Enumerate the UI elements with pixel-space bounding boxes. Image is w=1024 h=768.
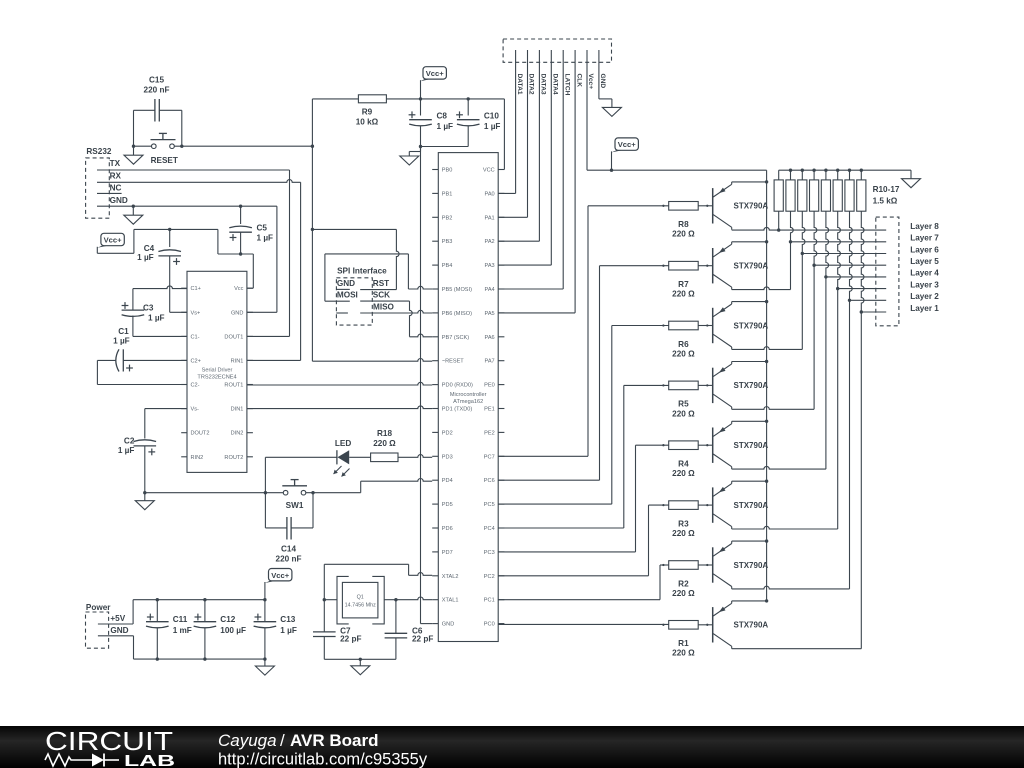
svg-text:C13: C13 (280, 615, 295, 624)
svg-text:10 kΩ: 10 kΩ (356, 118, 379, 127)
svg-text:PD1 (TXD0): PD1 (TXD0) (442, 407, 473, 413)
svg-text:220 Ω: 220 Ω (672, 409, 695, 418)
svg-text:LED: LED (335, 439, 351, 448)
svg-text:220 Ω: 220 Ω (672, 649, 695, 658)
svg-text:PA4: PA4 (485, 287, 495, 293)
svg-text:Vcc+: Vcc+ (104, 236, 123, 245)
svg-text:220 Ω: 220 Ω (672, 469, 695, 478)
svg-text:STX790A: STX790A (734, 561, 769, 570)
svg-text:DATA2: DATA2 (528, 74, 535, 95)
svg-text:R2: R2 (678, 579, 689, 588)
svg-text:NC: NC (110, 184, 122, 193)
svg-text:C2+: C2+ (191, 358, 201, 364)
svg-text:1 µF: 1 µF (148, 313, 165, 322)
svg-text:C15: C15 (149, 76, 164, 85)
svg-text:PC4: PC4 (484, 526, 495, 532)
svg-text:STX790A: STX790A (734, 621, 769, 630)
svg-text:RESET: RESET (151, 156, 178, 165)
svg-text:PA3: PA3 (485, 263, 495, 269)
svg-text:PC5: PC5 (484, 502, 495, 508)
svg-text:R3: R3 (678, 519, 689, 528)
svg-text:PA0: PA0 (485, 191, 495, 197)
svg-text:PB6 (MISO): PB6 (MISO) (442, 311, 472, 317)
svg-text:DOUT2: DOUT2 (191, 431, 210, 437)
svg-text:R1: R1 (678, 639, 689, 648)
svg-text:PB5 (MOSI): PB5 (MOSI) (442, 287, 472, 293)
svg-text:PE0: PE0 (484, 383, 495, 389)
svg-text:22 pF: 22 pF (412, 635, 433, 644)
svg-text:PD5: PD5 (442, 502, 453, 508)
svg-text:C2-: C2- (191, 383, 200, 389)
svg-text:CIRCUIT: CIRCUIT (45, 726, 173, 756)
svg-text:GND: GND (231, 310, 243, 316)
svg-text:ROUT1: ROUT1 (224, 383, 243, 389)
svg-text:PC1: PC1 (484, 598, 495, 604)
svg-text:DOUT1: DOUT1 (224, 334, 243, 340)
svg-text:PC0: PC0 (484, 622, 495, 628)
svg-text:Power: Power (86, 603, 111, 612)
svg-text:PD3: PD3 (442, 454, 453, 460)
svg-text:PB2: PB2 (442, 215, 453, 221)
svg-text:C14: C14 (281, 545, 296, 554)
svg-text:1 µF: 1 µF (113, 337, 130, 346)
svg-text:GND: GND (110, 626, 128, 635)
svg-text:PC6: PC6 (484, 478, 495, 484)
svg-text:PB7 (SCK): PB7 (SCK) (442, 335, 469, 341)
svg-text:RX: RX (110, 171, 122, 180)
svg-text:SPI Interface: SPI Interface (337, 267, 387, 276)
svg-text:R6: R6 (678, 340, 689, 349)
svg-text:220 nF: 220 nF (144, 85, 170, 94)
svg-text:PA6: PA6 (485, 335, 495, 341)
svg-text:R10-17: R10-17 (873, 185, 900, 194)
svg-text:1 µF: 1 µF (137, 253, 154, 262)
svg-text:R18: R18 (377, 429, 392, 438)
svg-text:STX790A: STX790A (734, 501, 769, 510)
svg-text:R5: R5 (678, 400, 689, 409)
svg-text:GND: GND (442, 622, 454, 628)
svg-text:PC2: PC2 (484, 574, 495, 580)
svg-text:PD2: PD2 (442, 430, 453, 436)
svg-text:Vcc: Vcc (234, 286, 244, 292)
svg-text:DATA1: DATA1 (516, 74, 523, 95)
svg-text:PA7: PA7 (485, 359, 495, 365)
svg-text:XTAL2: XTAL2 (442, 574, 459, 580)
svg-text:PB1: PB1 (442, 191, 453, 197)
svg-text:C11: C11 (173, 615, 188, 624)
svg-text:C5: C5 (257, 224, 268, 233)
svg-text:PD7: PD7 (442, 550, 453, 556)
svg-text:LAB: LAB (124, 753, 175, 768)
svg-text:C12: C12 (220, 615, 235, 624)
svg-text:R7: R7 (678, 280, 689, 289)
svg-text:220 Ω: 220 Ω (672, 290, 695, 299)
svg-text:DATA4: DATA4 (552, 74, 559, 95)
svg-text:CLK: CLK (575, 74, 582, 88)
svg-text:STX790A: STX790A (734, 262, 769, 271)
svg-text:MOSI: MOSI (337, 291, 358, 300)
svg-text:VCC: VCC (483, 168, 495, 174)
svg-text:GND: GND (110, 196, 128, 205)
svg-text:C3: C3 (143, 304, 154, 313)
svg-text:+5V: +5V (110, 614, 125, 623)
svg-text:LATCH: LATCH (563, 74, 570, 96)
svg-text:C4: C4 (144, 244, 155, 253)
svg-text:1 µF: 1 µF (257, 234, 274, 243)
svg-text:TRS232ECNE4: TRS232ECNE4 (197, 375, 236, 381)
svg-text:TX: TX (110, 159, 121, 168)
svg-text:R8: R8 (678, 220, 689, 229)
svg-text:PB0: PB0 (442, 168, 453, 174)
svg-text:PA2: PA2 (485, 239, 495, 245)
svg-text:100 µF: 100 µF (220, 626, 246, 635)
svg-text:220 Ω: 220 Ω (672, 589, 695, 598)
svg-text:Layer 6: Layer 6 (910, 245, 939, 254)
svg-text:DATA3: DATA3 (540, 74, 547, 95)
svg-text:14.7456 Mhz: 14.7456 Mhz (345, 602, 376, 608)
svg-text:STX790A: STX790A (734, 321, 769, 330)
svg-text:Serial Driver: Serial Driver (202, 368, 233, 374)
svg-text:220 Ω: 220 Ω (672, 529, 695, 538)
svg-text:Layer 4: Layer 4 (910, 269, 939, 278)
svg-text:R9: R9 (362, 108, 373, 117)
svg-text:Layer 8: Layer 8 (910, 222, 939, 231)
svg-text:PD0 (RXD0): PD0 (RXD0) (442, 383, 473, 389)
svg-text:C8: C8 (437, 111, 448, 120)
svg-text:C1+: C1+ (191, 286, 201, 292)
svg-text:Vcc+: Vcc+ (271, 571, 290, 580)
svg-text:1 µF: 1 µF (280, 626, 297, 635)
svg-text:RS232: RS232 (86, 147, 111, 156)
svg-text:220 Ω: 220 Ω (672, 349, 695, 358)
svg-text:220 Ω: 220 Ω (672, 230, 695, 239)
svg-text:Layer 2: Layer 2 (910, 292, 939, 301)
svg-text:Cayuga: Cayuga (218, 731, 277, 750)
svg-text:SW1: SW1 (286, 501, 304, 510)
svg-text:ATmega162: ATmega162 (453, 399, 483, 405)
svg-text:DIN2: DIN2 (231, 431, 244, 437)
svg-text:ROUT2: ROUT2 (224, 455, 243, 461)
svg-text:PB3: PB3 (442, 239, 453, 245)
svg-text:1.5 kΩ: 1.5 kΩ (873, 197, 898, 206)
svg-text:PE1: PE1 (484, 407, 495, 413)
svg-text:Vs+: Vs+ (191, 310, 201, 316)
svg-text:PA5: PA5 (485, 311, 495, 317)
svg-text:PC3: PC3 (484, 550, 495, 556)
svg-text:SCK: SCK (373, 291, 390, 300)
svg-text:STX790A: STX790A (734, 202, 769, 211)
svg-text:220 Ω: 220 Ω (373, 439, 396, 448)
svg-text:C10: C10 (484, 111, 499, 120)
svg-text:1 µF: 1 µF (437, 122, 454, 131)
svg-text:PD4: PD4 (442, 478, 453, 484)
svg-text:Vcc+: Vcc+ (618, 140, 637, 149)
svg-text:C2: C2 (124, 436, 135, 445)
svg-text:GND: GND (337, 279, 355, 288)
svg-text:1 mF: 1 mF (173, 626, 192, 635)
svg-text:C1: C1 (118, 327, 129, 336)
svg-text:220 nF: 220 nF (276, 554, 302, 563)
svg-text:GND: GND (599, 74, 606, 89)
svg-text:Layer 1: Layer 1 (910, 304, 939, 313)
svg-text:STX790A: STX790A (734, 441, 769, 450)
svg-text:RIN1: RIN1 (231, 358, 244, 364)
svg-text:PD6: PD6 (442, 526, 453, 532)
svg-text:C1-: C1- (191, 334, 200, 340)
svg-text:Vcc+: Vcc+ (587, 74, 594, 90)
svg-text:AVR Board: AVR Board (290, 731, 378, 750)
svg-text:22 pF: 22 pF (340, 635, 361, 644)
svg-text:RST: RST (373, 279, 389, 288)
svg-text:Q1: Q1 (357, 595, 364, 601)
svg-text:1 µF: 1 µF (118, 446, 135, 455)
svg-text:Layer 5: Layer 5 (910, 257, 939, 266)
svg-text:http://circuitlab.com/c95355y: http://circuitlab.com/c95355y (218, 751, 428, 768)
svg-text:Layer 3: Layer 3 (910, 280, 939, 289)
svg-text:1 µF: 1 µF (484, 122, 501, 131)
svg-text:~RESET: ~RESET (442, 359, 464, 365)
svg-text:PA1: PA1 (485, 215, 495, 221)
svg-text:Vcc+: Vcc+ (426, 69, 445, 78)
svg-text:PB4: PB4 (442, 263, 453, 269)
svg-text:PC7: PC7 (484, 454, 495, 460)
svg-text:DIN1: DIN1 (231, 407, 244, 413)
svg-text:R4: R4 (678, 460, 689, 469)
svg-text:XTAL1: XTAL1 (442, 598, 459, 604)
svg-text:Layer 7: Layer 7 (910, 234, 939, 243)
svg-text:STX790A: STX790A (734, 381, 769, 390)
svg-text:Microcontroller: Microcontroller (450, 392, 487, 398)
svg-text:/: / (280, 731, 285, 750)
svg-text:MISO: MISO (373, 302, 395, 311)
svg-text:Vs-: Vs- (191, 407, 200, 413)
svg-text:PE2: PE2 (484, 430, 495, 436)
svg-text:RIN2: RIN2 (191, 455, 204, 461)
